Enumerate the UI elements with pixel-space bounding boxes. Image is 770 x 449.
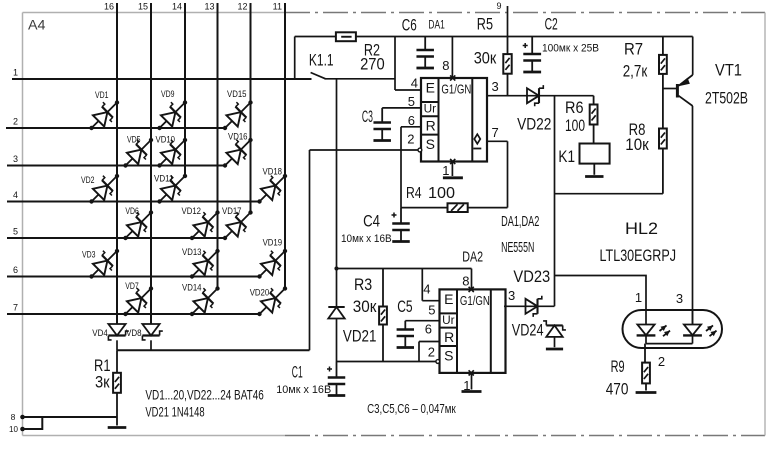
DA2 pin 6 tie to pin 2 <box>419 322 440 362</box>
svg-text:R9: R9 <box>611 357 625 376</box>
svg-text:4: 4 <box>411 76 418 91</box>
svg-text:1: 1 <box>635 290 642 305</box>
row line 6 <box>7 265 260 277</box>
svg-text:10к: 10к <box>625 135 649 154</box>
DA1 pin 3 output line <box>487 79 594 96</box>
diode VD14 (matrix, row 7 to column 13) <box>182 281 225 321</box>
diode VD1 (matrix, row 2 to column 16) <box>84 90 124 135</box>
diode VD16 (matrix, row 3 to column 12) <box>218 132 258 173</box>
svg-text:2: 2 <box>428 345 435 360</box>
capacitor C2 100uF 25V (rail to ground) <box>523 15 599 73</box>
svg-text:VD21: VD21 <box>343 326 377 345</box>
svg-text:VD1...20,VD22...24 BAT46: VD1...20,VD22...24 BAT46 <box>145 386 264 402</box>
svg-text:7: 7 <box>492 125 499 140</box>
svg-text:R: R <box>444 329 454 345</box>
svg-text:30к: 30к <box>474 49 497 68</box>
svg-text:3: 3 <box>13 154 18 164</box>
DA2 pin 4 (reset to top line) <box>422 269 439 301</box>
diode VD20 (matrix, row 7 to column 11) <box>250 281 292 321</box>
resistor R5 30k <box>474 15 512 96</box>
svg-text:2,7к: 2,7к <box>623 61 648 80</box>
wire - K1.1 node down to DA2 section <box>336 79 338 269</box>
svg-text:VT1: VT1 <box>715 61 742 80</box>
svg-text:VD14: VD14 <box>182 283 202 293</box>
column bus line 13 <box>204 2 217 289</box>
svg-text:1: 1 <box>13 68 18 78</box>
DA2 pin 2 label and inversion circle <box>428 345 440 364</box>
svg-text:5: 5 <box>13 227 18 237</box>
svg-text:VD10: VD10 <box>156 135 176 145</box>
svg-text:100: 100 <box>565 116 585 135</box>
svg-text:11: 11 <box>273 2 282 12</box>
svg-text:LTL30EGRPJ: LTL30EGRPJ <box>600 246 677 265</box>
svg-text:A4: A4 <box>28 17 46 33</box>
svg-text:VD4: VD4 <box>92 328 108 338</box>
svg-text:DA1,DA2: DA1,DA2 <box>501 214 539 230</box>
wire - DA2 section top line <box>334 266 471 270</box>
svg-text:5: 5 <box>408 94 415 109</box>
capacitor C1 10uF (trigger node to ground) <box>276 362 345 397</box>
wire - base line R7/R8 to VT1 <box>663 88 676 90</box>
diode VD9 (matrix, row 2 to column 14) <box>152 89 192 135</box>
svg-text:2Т502В: 2Т502В <box>705 89 748 108</box>
svg-text:470: 470 <box>606 380 629 399</box>
wire - matrix output up to DA1 pin S line <box>309 150 311 350</box>
wire - R8 bottom to VD22 output node <box>555 193 663 195</box>
svg-text:G1/GN: G1/GN <box>460 293 490 308</box>
svg-text:VD15: VD15 <box>227 89 247 99</box>
svg-text:R: R <box>426 117 436 133</box>
svg-text:C5: C5 <box>397 297 412 316</box>
column bus line 14 <box>172 2 185 177</box>
svg-text:C4: C4 <box>363 212 380 231</box>
svg-text:4: 4 <box>13 190 18 200</box>
DA2 pin 3 output <box>504 288 555 306</box>
svg-text:VD22: VD22 <box>517 115 551 134</box>
svg-text:VD5: VD5 <box>127 135 141 145</box>
svg-text:2: 2 <box>658 354 665 369</box>
svg-text:1: 1 <box>442 163 449 178</box>
DA2 pin 8 (power) <box>462 269 471 290</box>
diode VD3 (matrix, row 6 to column 16) <box>82 244 124 284</box>
svg-text:C2: C2 <box>545 15 558 34</box>
power rail (+V top wire) <box>295 36 693 38</box>
ground under R9 <box>636 391 657 394</box>
relay coil K1 <box>558 144 609 167</box>
diode VD15 (matrix, row 2 to column 12) <box>218 89 258 135</box>
svg-text:12: 12 <box>237 2 247 12</box>
DA1 pin 1 to ground <box>442 162 463 179</box>
svg-text:VD21 1N4148: VD21 1N4148 <box>145 404 204 420</box>
capacitor C3 and DA1 pin 5 <box>362 94 421 141</box>
wire - rail to DA1 pin 4 <box>395 37 421 91</box>
resistor R6 100 <box>565 96 598 144</box>
timer IC DA1 (NE555N) <box>421 75 487 164</box>
resistor R7 2.7k <box>623 37 667 89</box>
relay contact K1.1 <box>309 51 395 79</box>
svg-text:K1: K1 <box>558 147 575 166</box>
column bus line 16 <box>104 2 117 325</box>
DA2 pin 1 to ground <box>462 373 482 393</box>
wire - rail down to contact K1.1 <box>294 37 296 80</box>
row line 4 <box>7 190 260 202</box>
diode VD23 (Schottky) <box>513 267 550 317</box>
svg-text:8: 8 <box>462 274 469 289</box>
svg-text:VD19: VD19 <box>263 238 283 248</box>
svg-text:E: E <box>444 291 453 307</box>
svg-text:VD12: VD12 <box>182 206 202 216</box>
svg-text:4: 4 <box>423 282 430 297</box>
row line 7 <box>7 303 260 315</box>
svg-text:G1/GN: G1/GN <box>441 82 471 97</box>
resistor R9 470 <box>606 344 650 399</box>
wire - VD22 node vertical (to VD23/VD24/HL2) <box>554 96 556 307</box>
row line 3 <box>7 154 225 166</box>
column bus line 12 <box>237 2 250 213</box>
svg-text:R4: R4 <box>406 185 422 202</box>
svg-text:6: 6 <box>425 322 432 337</box>
resistor R8 10k <box>625 89 667 194</box>
diode VD19 (matrix, row 6 to column 11) <box>252 238 292 284</box>
diode VD18 (matrix, row 4 to column 11) <box>252 167 292 209</box>
column bus line 11 <box>273 2 285 289</box>
wire - pins 2/6 node down to R4/C4 <box>400 150 402 208</box>
svg-text:VD9: VD9 <box>161 89 175 99</box>
diode VD7 (matrix, row 7 to column 15) <box>118 281 158 321</box>
svg-text:100: 100 <box>428 185 455 202</box>
resistor R1 3k <box>94 350 121 425</box>
label diode types <box>145 386 264 419</box>
svg-text:VD6: VD6 <box>125 206 138 216</box>
wire - node to HL2 pin 1 <box>555 276 647 325</box>
svg-text:Ur: Ur <box>442 313 455 327</box>
wire - VD21 branch vertical <box>336 269 338 362</box>
svg-text:VD20: VD20 <box>250 288 270 298</box>
diode VD8 (column 15 to matrix output line) <box>126 324 163 350</box>
svg-text:DA1: DA1 <box>428 19 444 31</box>
transistor VT1 2T502B (PNP) <box>677 37 748 108</box>
svg-text:E: E <box>426 80 435 96</box>
svg-text:3к: 3к <box>95 373 110 392</box>
svg-text:VD18: VD18 <box>263 167 283 177</box>
svg-text:VD24: VD24 <box>512 320 544 339</box>
svg-text:VD23: VD23 <box>513 267 550 286</box>
svg-text:16: 16 <box>104 2 114 12</box>
column bus line 15 <box>138 2 151 325</box>
capacitor C6 (rail to ground) <box>402 15 434 68</box>
diode VD12 (matrix, row 5 to column 13) <box>182 205 225 245</box>
svg-text:8: 8 <box>442 58 449 73</box>
svg-text:VD2: VD2 <box>81 175 95 185</box>
svg-text:K1.1: K1.1 <box>309 51 334 70</box>
diode VD10 (matrix, row 3 to column 14) <box>152 133 192 173</box>
svg-text:VD7: VD7 <box>125 281 139 291</box>
DA1 pin 7 discharge <box>487 125 508 208</box>
row line 5 <box>7 227 225 239</box>
svg-text:R7: R7 <box>624 40 643 59</box>
row line 1 <box>12 68 312 80</box>
svg-text:2: 2 <box>407 132 414 147</box>
matrix output line (bottom collection wire) <box>117 349 310 351</box>
line 8 (common return) <box>11 412 117 422</box>
wire - VT1 collector down to HL2 pin 3 <box>692 106 694 325</box>
capacitor C5 and DA2 pin 5 <box>397 297 440 348</box>
svg-text:VD16: VD16 <box>228 132 248 142</box>
svg-text:10мк x 16В: 10мк x 16В <box>341 233 392 245</box>
svg-text:HL2: HL2 <box>625 219 658 238</box>
labels DA1,DA2 NE555N <box>501 214 539 256</box>
svg-text:6: 6 <box>408 113 415 128</box>
line 10 <box>9 417 42 434</box>
diode VD22 (Schottky) <box>517 85 551 133</box>
svg-text:VD1: VD1 <box>95 90 109 100</box>
svg-text:30к: 30к <box>353 297 377 316</box>
svg-text:100мк x 25В: 100мк x 25В <box>542 43 599 55</box>
DA1 pin 2 S line (trigger) <box>310 132 422 152</box>
svg-text:6: 6 <box>13 265 18 275</box>
diode VD2 (matrix, row 4 to column 16) <box>81 169 124 209</box>
svg-text:3: 3 <box>676 291 683 306</box>
svg-text:C3,C5,C6 – 0,047мк: C3,C5,C6 – 0,047мк <box>367 401 456 416</box>
svg-text:3: 3 <box>492 79 499 94</box>
svg-text:VD17: VD17 <box>222 206 242 216</box>
resistor R3 30k <box>353 269 387 362</box>
svg-text:3: 3 <box>508 288 515 303</box>
svg-text:10мк x 16В: 10мк x 16В <box>276 384 331 396</box>
svg-text:2: 2 <box>13 117 18 127</box>
svg-text:VD13: VD13 <box>182 247 202 257</box>
row line 2 <box>6 117 225 129</box>
svg-text:7: 7 <box>13 303 18 313</box>
resistor R4 100 <box>401 185 508 212</box>
svg-text:VD8: VD8 <box>126 328 142 338</box>
svg-text:C6: C6 <box>402 15 417 34</box>
svg-text:R5: R5 <box>477 15 493 34</box>
diode VD21 1N4148 <box>328 307 376 345</box>
wire - common cathode to pin 2 <box>646 335 693 343</box>
diode VD5 (matrix, row 3 to column 15) <box>118 133 158 173</box>
DA1 pin 8 (power) <box>442 37 452 79</box>
line 9 (supply input) <box>496 1 507 37</box>
svg-text:C1: C1 <box>292 363 303 382</box>
capacitor C4 10uF (to ground) <box>341 208 410 245</box>
svg-text:VD3: VD3 <box>82 250 96 260</box>
svg-text:Ur: Ur <box>424 102 437 116</box>
svg-text:S: S <box>426 136 435 152</box>
svg-text:9: 9 <box>496 1 501 11</box>
svg-text:NE555N: NE555N <box>501 240 534 256</box>
svg-text:14: 14 <box>172 2 182 12</box>
svg-text:S: S <box>444 348 453 364</box>
svg-text:R6: R6 <box>565 98 584 117</box>
diode VD24 (Schottky, node to ground) <box>512 320 566 349</box>
svg-text:8: 8 <box>11 412 16 422</box>
svg-text:R3: R3 <box>354 275 372 294</box>
svg-text:270: 270 <box>360 55 385 74</box>
diode VD4 (column 16 to matrix output line) <box>92 324 129 350</box>
resistor R2 270 (on rail) <box>336 32 385 73</box>
ground under K1 <box>585 164 603 177</box>
svg-text:DA2: DA2 <box>462 249 483 266</box>
svg-text:10: 10 <box>9 425 18 434</box>
diode VD6 (matrix, row 5 to column 15) <box>118 205 158 245</box>
LED 1 (inside HL2) <box>637 325 670 337</box>
DA2 trigger line (S) <box>337 361 436 363</box>
svg-text:C3: C3 <box>362 107 373 126</box>
svg-text:15: 15 <box>138 2 148 12</box>
LED assembly HL2 LTL30EGRPJ <box>600 219 723 369</box>
ground under R1 <box>108 426 127 429</box>
svg-text:1: 1 <box>463 378 470 393</box>
diode VD17 (matrix, row 5 to column 12) <box>218 205 258 245</box>
svg-text:VD11: VD11 <box>154 174 174 184</box>
diode VD13 (matrix, row 6 to column 13) <box>182 244 225 284</box>
LED 2 (inside HL2) <box>683 310 716 336</box>
svg-text:13: 13 <box>204 2 214 12</box>
diode VD11 (matrix, row 4 to column 14) <box>152 169 192 209</box>
DA1 pin 6 tie to pin 2 <box>401 113 421 150</box>
timer IC DA2 (NE555N) <box>440 287 506 376</box>
svg-text:5: 5 <box>428 303 435 318</box>
